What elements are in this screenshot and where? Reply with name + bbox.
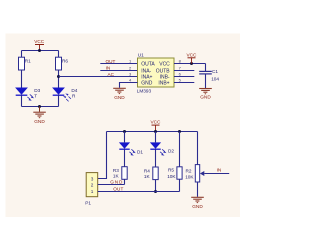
- svg-text:D3: D3: [34, 88, 40, 93]
- svg-text:P1: P1: [85, 201, 91, 206]
- wire: R2 to ground: [197, 182, 199, 197]
- LED D1: [119, 142, 143, 154]
- junction R4/OUT: [154, 190, 157, 193]
- power VCC symbol (U1 pin8): [187, 53, 198, 64]
- connector P1: [85, 173, 97, 206]
- svg-text:1K: 1K: [113, 174, 120, 179]
- svg-text:GND: GND: [192, 204, 203, 209]
- junction R5 column: [178, 130, 181, 133]
- power VCC symbol (bottom): [151, 120, 162, 132]
- svg-text:VCC: VCC: [34, 39, 45, 44]
- svg-text:1K: 1K: [144, 174, 151, 179]
- svg-text:104: 104: [211, 77, 219, 82]
- wire: U1 pin5 stub: [174, 82, 194, 84]
- wire: rail to D1: [124, 132, 126, 143]
- svg-text:U1: U1: [138, 53, 144, 58]
- svg-text:OUT: OUT: [113, 187, 123, 192]
- svg-text:10K: 10K: [185, 174, 194, 179]
- resistor R3: [113, 167, 127, 180]
- wire: left riser to R1: [21, 51, 23, 58]
- svg-text:LM393: LM393: [137, 89, 152, 94]
- LED D3: [15, 88, 41, 99]
- capacitor C1: [199, 64, 219, 89]
- wire: rail to D2: [155, 132, 157, 143]
- R2 wiper arrow: [200, 171, 204, 176]
- resistor R5: [167, 167, 182, 179]
- wire: VCC top rail: [22, 50, 59, 52]
- wire: net AC from R6/D4 node to U1 pin3: [59, 76, 138, 78]
- svg-text:GND: GND: [114, 95, 125, 100]
- wire: R5 to OUT net end: [179, 179, 181, 191]
- wire: R4 to OUT net: [155, 180, 157, 192]
- ground symbol (U1 pin4): [113, 88, 126, 100]
- svg-text:IN: IN: [217, 167, 222, 172]
- svg-text:OUTA: OUTA: [141, 61, 155, 67]
- wire: R3 to GND net: [124, 179, 126, 184]
- wire: U1 pin4 to ground: [120, 83, 138, 88]
- junction R6/D4 node: [57, 75, 60, 78]
- svg-text:C1: C1: [212, 69, 218, 74]
- wire: net OUT stub to U1 pin1: [100, 63, 137, 65]
- wire: D2 to R4: [155, 149, 157, 167]
- wire: D1 to R3: [124, 149, 126, 167]
- ground symbol (C1): [199, 89, 212, 100]
- svg-text:R6: R6: [62, 58, 68, 63]
- wire: bottom rail D3-D4: [22, 106, 59, 108]
- LED D4 receive arrows: [63, 94, 71, 102]
- junction pin8/VCC: [190, 62, 193, 65]
- svg-text:1: 1: [91, 189, 94, 194]
- svg-text:OUT: OUT: [106, 59, 116, 64]
- power VCC symbol (top-left): [34, 39, 45, 50]
- wire: U1 pin6 stub: [174, 76, 194, 78]
- svg-text:INA-: INA-: [141, 68, 151, 74]
- svg-text:VCC: VCC: [151, 120, 162, 125]
- LED D1 emit arrows: [129, 149, 135, 155]
- wire: U1 pin8 to VCC and C1: [174, 63, 206, 65]
- svg-text:R4: R4: [144, 168, 150, 173]
- ground symbol (top-left): [33, 107, 46, 125]
- wire: right riser to R6: [58, 51, 60, 58]
- svg-text:3: 3: [91, 177, 94, 182]
- ground symbol (R2): [191, 197, 204, 209]
- wire: D3 to bottom rail: [21, 95, 23, 106]
- svg-text:AC: AC: [108, 72, 115, 77]
- svg-text:GND: GND: [141, 81, 153, 87]
- resistor R1: [19, 57, 32, 70]
- svg-text:T: T: [34, 94, 37, 99]
- wire: R6 to D4: [58, 70, 60, 88]
- LED D2 emit arrows: [160, 149, 166, 155]
- wire: rail to R5: [179, 132, 181, 167]
- junction at VCC rail: [38, 49, 41, 52]
- wire: bottom VCC rail: [107, 131, 198, 133]
- LED D3 emit arrows: [27, 94, 34, 100]
- sheet background: [6, 34, 241, 218]
- svg-text:INB+: INB+: [158, 81, 169, 87]
- svg-text:R5: R5: [168, 168, 174, 173]
- wire: net GND P1 pin2 to R3: [98, 184, 125, 186]
- U1 pin numbers right: [179, 59, 182, 83]
- LED D4: [52, 88, 78, 99]
- junction D1 column: [123, 130, 126, 133]
- svg-text:VCC: VCC: [159, 61, 170, 67]
- svg-text:D2: D2: [168, 149, 174, 154]
- wire: R1 to D3: [21, 70, 23, 88]
- svg-text:R2: R2: [186, 168, 192, 173]
- svg-text:IN: IN: [106, 66, 111, 71]
- resistor R4: [144, 167, 158, 180]
- U1 pin numbers left: [129, 59, 132, 83]
- svg-text:VCC: VCC: [187, 53, 198, 58]
- wire: rail right corner to R2: [197, 132, 199, 165]
- svg-text:R3: R3: [113, 168, 119, 173]
- svg-text:GND: GND: [110, 179, 123, 184]
- wire: P1 pin3 riser: [98, 132, 107, 179]
- U1 pin names left column: [141, 61, 155, 86]
- wire: net IN stub to U1 pin2: [100, 70, 137, 72]
- svg-text:R1: R1: [25, 58, 31, 63]
- U1 pin names right column: [156, 61, 171, 86]
- svg-text:GND: GND: [34, 119, 45, 124]
- junction at bottom rail: [38, 105, 41, 108]
- svg-text:OUTB: OUTB: [156, 68, 171, 74]
- svg-text:10K: 10K: [167, 174, 176, 179]
- potentiometer R2: [185, 165, 200, 182]
- svg-text:D1: D1: [137, 149, 143, 154]
- wire: D4 to bottom rail: [58, 95, 60, 106]
- op-amp comparator U1 body: [137, 53, 174, 94]
- resistor R6: [56, 57, 69, 70]
- wire: U1 pin7 stub: [174, 70, 194, 72]
- svg-text:2: 2: [91, 183, 94, 188]
- svg-text:D4: D4: [71, 88, 77, 93]
- wire: wiper to IN stub: [204, 173, 229, 175]
- junction D2/VCC column: [154, 130, 157, 133]
- svg-text:GND: GND: [200, 94, 211, 99]
- LED D2: [150, 142, 174, 153]
- wire: net OUT P1 pin1 to R5: [98, 191, 180, 193]
